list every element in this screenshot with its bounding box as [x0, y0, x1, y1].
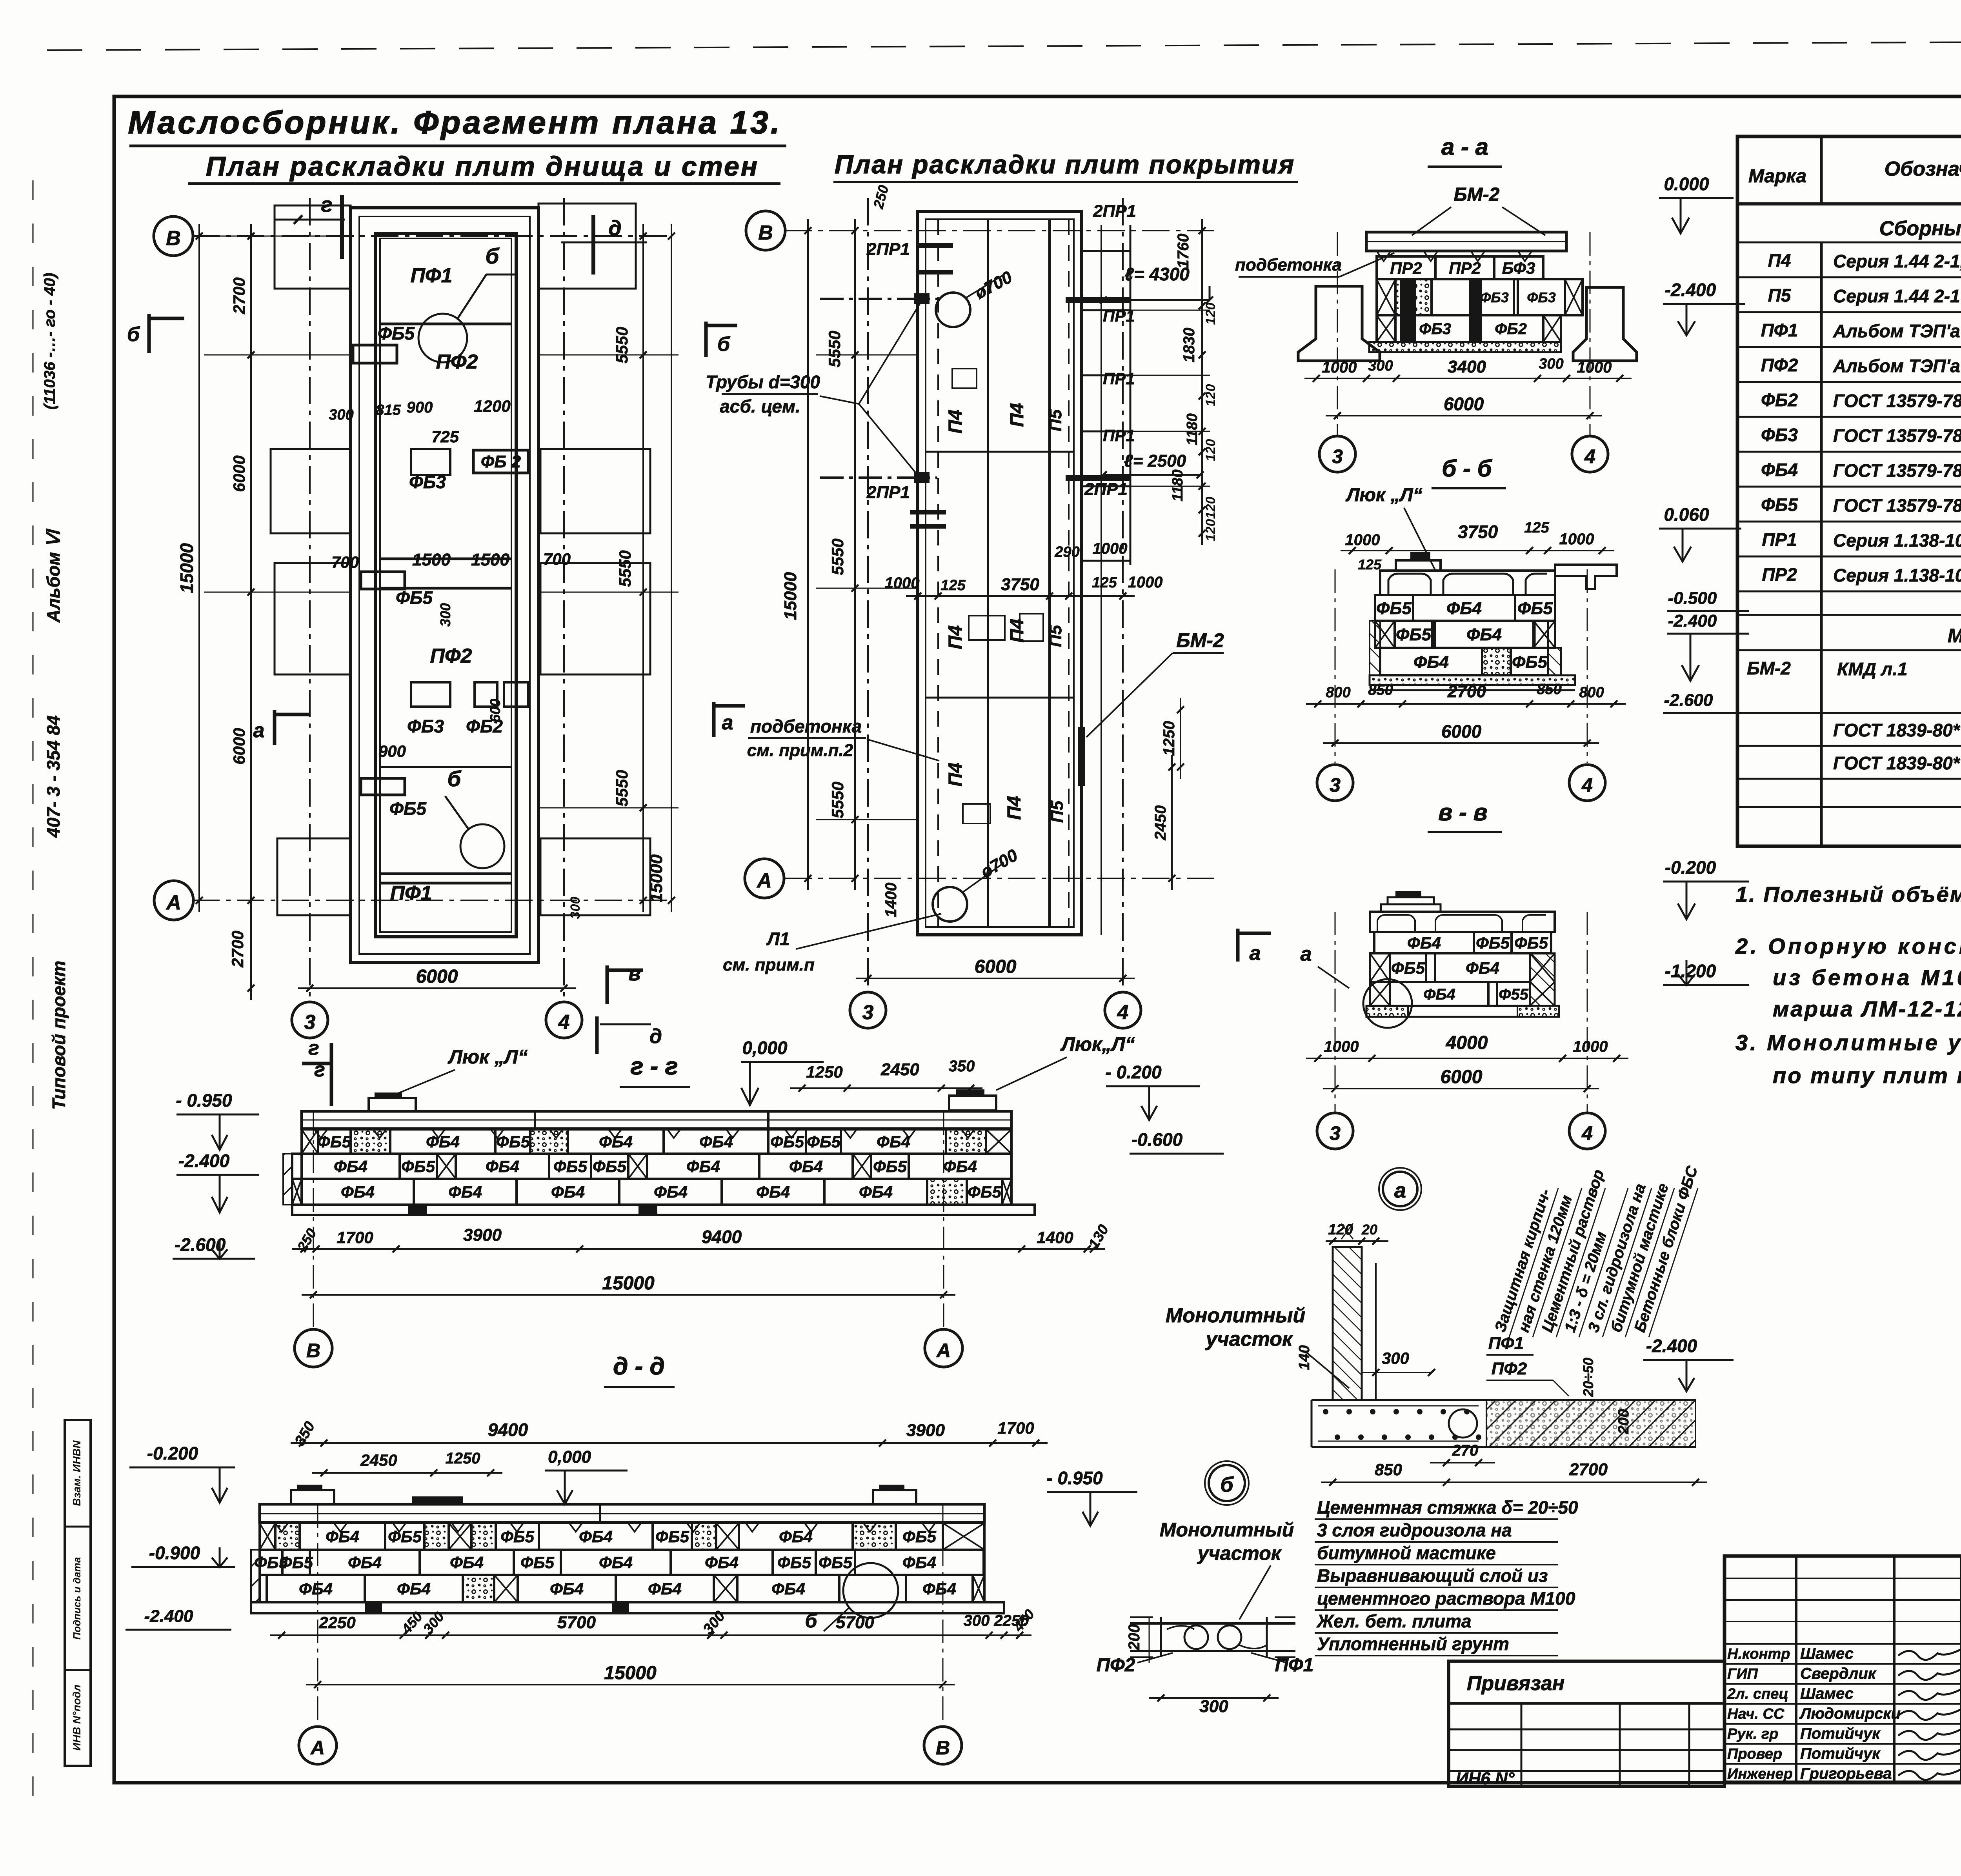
top lids в-в [1395, 891, 1421, 897]
grid circle 3 middle [850, 992, 886, 1028]
svg-text:ФБ4: ФБ4 [699, 1133, 733, 1151]
right total 15000 [671, 224, 672, 912]
svg-text:ФБ2: ФБ2 [1495, 320, 1527, 338]
block ФБ5 lower [361, 778, 405, 795]
svg-text:П4: П4 [1768, 250, 1791, 271]
section д-д group [126, 1353, 1137, 1764]
svg-text:П4: П4 [1007, 403, 1028, 427]
svg-text:ФБ5: ФБ5 [873, 1157, 907, 1176]
svg-text:Монолитный: Монолитный [1166, 1304, 1305, 1327]
svg-text:1760: 1760 [1175, 234, 1192, 269]
svg-text:ФБ4: ФБ4 [771, 1580, 805, 1598]
block ФБ5 upper [353, 345, 397, 363]
svg-text:1500: 1500 [471, 550, 509, 569]
lintel marks left top [918, 243, 953, 248]
svg-text:ФБ5: ФБ5 [553, 1157, 588, 1176]
svg-text:120: 120 [1203, 439, 1218, 462]
axis circle В [154, 216, 193, 256]
dim 6000 а-а [1326, 415, 1602, 416]
dim chain д-д bottom [270, 1634, 1031, 1636]
svg-text:Цементная стяжка δ= 20÷50: Цементная стяжка δ= 20÷50 [1317, 1497, 1578, 1518]
svg-text:ГОСТ 13579-78: ГОСТ 13579-78 [1833, 460, 1961, 481]
svg-text:ФБ5: ФБ5 [496, 1133, 530, 1151]
top slab в-в [1370, 912, 1555, 932]
svg-text:125: 125 [1524, 520, 1549, 536]
svg-text:ФБ4: ФБ4 [1423, 986, 1455, 1003]
svg-text:а: а [253, 719, 265, 742]
main block frame [1725, 1556, 1961, 1782]
svg-text:1200: 1200 [474, 397, 510, 415]
svg-text:-2.400: -2.400 [144, 1607, 193, 1626]
section mark б left [147, 314, 151, 353]
svg-text:125: 125 [1358, 556, 1382, 573]
svg-text:300: 300 [1539, 356, 1563, 372]
svg-text:ФБ4: ФБ4 [789, 1157, 823, 1176]
svg-text:ФБ5: ФБ5 [1476, 934, 1510, 952]
dims 1250 2450 350 [790, 1087, 982, 1089]
axis circle А middle [745, 859, 784, 898]
svg-text:П5: П5 [1046, 409, 1065, 431]
svg-text:120: 120 [1203, 497, 1218, 519]
wall blocks б-б row3 [1380, 648, 1482, 675]
block ФБ3 lower [411, 682, 450, 707]
svg-text:участок: участок [1205, 1328, 1293, 1351]
svg-text:ФБ4: ФБ4 [450, 1553, 484, 1572]
svg-text:П4: П4 [1004, 796, 1025, 820]
svg-text:2700: 2700 [228, 931, 247, 967]
svg-text:ФБ4: ФБ4 [1446, 599, 1482, 618]
wall blocks а-а row2 [1377, 279, 1395, 315]
svg-text:д: д [649, 1025, 662, 1048]
axis line В middle [784, 230, 1216, 231]
svg-text:ФБ4: ФБ4 [550, 1580, 584, 1598]
svg-text:ИНВ N°подл: ИНВ N°подл [71, 1685, 83, 1751]
foundation pad left 3 [275, 563, 351, 674]
edge hatch strips б-б [1370, 621, 1380, 675]
svg-text:ФБ5: ФБ5 [1514, 934, 1548, 952]
svg-text:125: 125 [1092, 574, 1117, 591]
svg-text:Марка: Марка [1748, 166, 1806, 187]
wall blocks в-в row2 [1370, 953, 1390, 982]
foundation pad right 3 [540, 563, 650, 674]
svg-text:1000: 1000 [1559, 531, 1594, 548]
svg-text:П5: П5 [1048, 800, 1067, 823]
top fold dashed line [47, 40, 1961, 50]
svg-text:700: 700 [331, 553, 359, 571]
svg-text:Альбом ТЭП'а N 71147: Альбом ТЭП'а N 71147 [1833, 356, 1961, 376]
top plate row б-б [1380, 571, 1555, 595]
svg-text:3900: 3900 [463, 1225, 502, 1245]
svg-text:Выравнивающий слой из: Выравнивающий слой из [1317, 1565, 1548, 1586]
svg-text:200: 200 [1126, 1624, 1143, 1651]
pipe dashdot bottom [820, 476, 937, 479]
svg-text:б: б [127, 323, 140, 346]
svg-text:Взам. ИНВN: Взам. ИНВN [71, 1440, 83, 1506]
section г-г group [173, 1033, 1224, 1367]
margin inv table [65, 1420, 91, 1766]
grid circles 3 4 а-а [1337, 232, 1338, 435]
svg-text:ПФ1: ПФ1 [1488, 1334, 1524, 1353]
svg-text:П4: П4 [945, 409, 966, 433]
svg-text:300: 300 [1382, 1349, 1409, 1367]
svg-text:6000: 6000 [1441, 721, 1482, 742]
dashed wall line right [1068, 219, 1070, 927]
svg-text:1000: 1000 [885, 574, 920, 592]
dim 300 detail б [1149, 1697, 1279, 1699]
svg-text:6000: 6000 [230, 455, 248, 492]
svg-text:600: 600 [487, 699, 503, 722]
dim 6000 б-б [1323, 742, 1599, 744]
base strip а-а [1369, 342, 1561, 352]
svg-text:БМ-2: БМ-2 [1454, 184, 1500, 205]
left dim chain vertical [250, 224, 252, 1000]
dims top д-д row2 [312, 1472, 502, 1474]
svg-text:- 0.950: - 0.950 [1046, 1468, 1103, 1488]
svg-text:-2.600: -2.600 [175, 1234, 226, 1255]
svg-text:Металлоконструкции: Металлоконструкции [1948, 625, 1961, 647]
svg-text:0,000: 0,000 [548, 1447, 591, 1467]
svg-text:20÷50: 20÷50 [1580, 1358, 1596, 1397]
svg-text:300: 300 [437, 603, 453, 627]
svg-text:- 0.200: - 0.200 [1105, 1062, 1162, 1082]
right dim chain 5550s [642, 224, 644, 912]
block ФБ3 upper [411, 449, 450, 475]
svg-text:5550: 5550 [828, 782, 847, 818]
svg-text:ФБ4: ФБ4 [599, 1133, 633, 1151]
svg-text:ФБ4: ФБ4 [686, 1157, 720, 1176]
svg-text:П4: П4 [1007, 618, 1028, 642]
main block left columns [1795, 1556, 1797, 1782]
труба leader lines [820, 396, 859, 404]
svg-text:План раскладки плит днища: План раскладки плит днища и стен [206, 151, 759, 182]
svg-text:в: в [628, 962, 640, 985]
svg-text:г - г: г - г [630, 1053, 678, 1080]
svg-text:а: а [1301, 943, 1312, 965]
svg-text:6000: 6000 [975, 956, 1017, 977]
section б-б group [1306, 455, 1749, 801]
svg-text:Типовой проект: Типовой проект [49, 961, 69, 1110]
table row ФБ2 [1737, 416, 1961, 418]
svg-text:ФБ4: ФБ4 [1466, 625, 1502, 644]
section а-а group [1235, 134, 1745, 472]
blank row [1737, 614, 1961, 616]
grid circles 3 4 б-б [1335, 569, 1336, 763]
svg-text:ФБ4: ФБ4 [877, 1133, 910, 1151]
left end hatch д-д [251, 1550, 260, 1602]
svg-text:ФБ4: ФБ4 [299, 1580, 333, 1598]
svg-text:ФБ5: ФБ5 [770, 1133, 804, 1151]
svg-text:1000: 1000 [1128, 574, 1163, 591]
foundation pad right 2 [540, 449, 650, 533]
section mark г bottom left [330, 1043, 333, 1086]
svg-text:120: 120 [1328, 1222, 1353, 1238]
svg-text:асб. цем.: асб. цем. [720, 396, 800, 416]
svg-text:д - д: д - д [613, 1353, 665, 1380]
svg-text:15000: 15000 [604, 1663, 657, 1683]
svg-text:ФБ3: ФБ3 [1419, 320, 1451, 338]
svg-text:ПФ1: ПФ1 [411, 264, 453, 287]
pedestal left а-а [1298, 286, 1380, 361]
svg-text:0.000: 0.000 [1664, 174, 1709, 194]
svg-text:6000: 6000 [230, 728, 248, 764]
svg-text:ФБ5: ФБ5 [655, 1527, 689, 1546]
svg-text:1000: 1000 [1345, 531, 1380, 549]
pedestal right а-а [1573, 287, 1637, 361]
svg-text:б: б [448, 766, 462, 791]
svg-text:ПР1: ПР1 [1103, 426, 1135, 445]
svg-text:ПР2: ПР2 [1449, 259, 1481, 277]
hatched concrete right part [1486, 1400, 1695, 1447]
svg-text:Л1: Л1 [766, 929, 789, 949]
svg-text:3: 3 [1330, 1122, 1341, 1144]
svg-text:140: 140 [1296, 1345, 1313, 1370]
svg-text:участок: участок [1197, 1542, 1282, 1564]
svg-text:4: 4 [1581, 774, 1593, 796]
svg-text:ФБ4: ФБ4 [599, 1553, 633, 1572]
title block group [1449, 1556, 1961, 1788]
svg-text:План раскладки плит покрытия: План раскладки плит покрытия [835, 150, 1295, 179]
signature scribbles [1898, 1649, 1961, 1660]
interior joint middle [380, 766, 511, 768]
svg-text:850: 850 [1537, 681, 1561, 698]
svg-text:ФБ4: ФБ4 [756, 1183, 790, 1201]
svg-text:Люк „Л“: Люк „Л“ [1345, 485, 1422, 505]
table row ПФ1 [1737, 346, 1961, 348]
svg-text:ФБ4: ФБ4 [426, 1133, 460, 1151]
grid circles 3 4 в-в [1335, 912, 1336, 1112]
svg-text:А: А [166, 891, 181, 914]
grid circle 3 [292, 1002, 328, 1038]
grid line 3 middle [867, 198, 869, 992]
svg-text:Григорьева: Григорьева [1800, 1765, 1892, 1782]
svg-text:-0.600: -0.600 [1131, 1129, 1183, 1150]
svg-text:1000: 1000 [1324, 1038, 1359, 1055]
svg-text:см. прим.п.2: см. прим.п.2 [747, 741, 853, 760]
interior joint below ПФ1 [380, 323, 511, 325]
edge hatch strip в-в right [1530, 953, 1555, 1006]
svg-text:ИН6 N°: ИН6 N° [1456, 1769, 1515, 1788]
svg-text:700: 700 [543, 550, 571, 568]
svg-text:В: В [306, 1340, 320, 1362]
block ФБ2 upper labelled [473, 450, 528, 473]
bottom 6000 middle [856, 978, 1135, 979]
axis line В [192, 235, 667, 237]
svg-text:Жел. бет. плита: Жел. бет. плита [1316, 1611, 1472, 1631]
svg-text:15000: 15000 [176, 543, 197, 593]
svg-text:ФБ4: ФБ4 [1466, 959, 1499, 977]
а mark right of middle plan [1236, 929, 1240, 962]
wall blocks а-а row ПР2 [1377, 256, 1435, 279]
svg-text:ПР1: ПР1 [1762, 529, 1797, 550]
svg-text:ФБ4: ФБ4 [348, 1553, 382, 1572]
БМ-2 support thick band [1078, 727, 1085, 786]
dim extension lines left plan [204, 354, 351, 356]
svg-text:Н.контр: Н.контр [1727, 1646, 1790, 1662]
svg-text:ФБ5: ФБ5 [1376, 599, 1412, 618]
svg-text:Уплотненный грунт: Уплотненный грунт [1317, 1634, 1509, 1654]
svg-text:ФБ4: ФБ4 [448, 1183, 482, 1201]
svg-text:подбетонка: подбетонка [1235, 255, 1342, 274]
svg-text:ГОСТ 1839-80*: ГОСТ 1839-80* [1833, 753, 1961, 773]
middle total 15000 [807, 219, 809, 890]
plate joint vertical 2 [1048, 219, 1051, 927]
svg-text:20: 20 [1361, 1222, 1377, 1238]
люк bump right [949, 1096, 996, 1111]
svg-text:Шамес: Шамес [1800, 1645, 1854, 1662]
svg-text:3. Монолитные участки: 3. Монолитные участки днищ выполнять с а… [1735, 1030, 1961, 1055]
svg-text:ФБ4: ФБ4 [705, 1553, 739, 1572]
svg-text:Инженер: Инженер [1727, 1766, 1793, 1782]
dim 15000 г-г [302, 1294, 955, 1296]
svg-text:5550: 5550 [616, 550, 634, 587]
svg-text:2ПР1: 2ПР1 [866, 240, 910, 259]
svg-text:300: 300 [568, 897, 583, 919]
svg-text:ФБ4: ФБ4 [654, 1183, 688, 1201]
svg-text:ФБ5: ФБ5 [1517, 599, 1553, 618]
break mark top [1341, 1223, 1353, 1239]
svg-text:ПР2: ПР2 [1390, 259, 1422, 277]
interior joint above bottom ПФ1 [380, 873, 511, 875]
svg-text:ФБ 2: ФБ 2 [481, 452, 521, 471]
svg-text:3: 3 [862, 1001, 874, 1024]
svg-text:Альбом ТЭП'а N 71147: Альбом ТЭП'а N 71147 [1833, 321, 1961, 341]
svg-text:-2.400: -2.400 [178, 1151, 230, 1171]
svg-text:а - а: а - а [1441, 134, 1488, 160]
svg-text:1250: 1250 [1161, 721, 1178, 756]
dim extension lines middle plan [816, 354, 918, 356]
svg-text:Серия 1.44 2-1,-в.1,2: Серия 1.44 2-1,-в.1,2 [1833, 251, 1961, 271]
svg-text:9400: 9400 [488, 1420, 528, 1440]
svg-text:-0.900: -0.900 [149, 1543, 200, 1563]
section mark в bottom right [606, 965, 609, 1004]
svg-text:ПФ2: ПФ2 [1761, 355, 1798, 375]
svg-text:1400: 1400 [882, 883, 900, 918]
svg-text:Трубы d=300: Трубы d=300 [706, 372, 820, 392]
wall г-г row1 [302, 1129, 318, 1154]
axis line А [192, 900, 667, 901]
svg-text:-2.400: -2.400 [1665, 280, 1716, 300]
dims top д-д row1 [291, 1442, 1048, 1444]
svg-text:а: а [722, 711, 733, 734]
svg-text:6000: 6000 [1444, 394, 1484, 414]
svg-text:6000: 6000 [1441, 1067, 1483, 1087]
svg-text:Серия 1.138-10 в.1: Серия 1.138-10 в.1 [1833, 530, 1961, 551]
svg-text:6000: 6000 [416, 966, 458, 987]
wall blocks б-б row2 [1375, 621, 1395, 648]
top slab а-а [1366, 232, 1566, 251]
grid line 4 [563, 198, 565, 1002]
svg-text:ФБ4: ФБ4 [648, 1580, 682, 1598]
detail circle а on в-в [1363, 979, 1412, 1028]
wall blocks в-в row3 [1370, 982, 1390, 1006]
svg-text:Людомирски: Людомирски [1799, 1705, 1901, 1722]
svg-text:2ПР1: 2ПР1 [866, 483, 910, 502]
top slab г-г [302, 1111, 1011, 1129]
top slab д-д [260, 1504, 984, 1522]
svg-text:битумной мастике: битумной мастике [1317, 1543, 1496, 1563]
svg-text:3: 3 [1332, 445, 1343, 467]
svg-text:15000: 15000 [781, 572, 800, 620]
svg-text:ФБ5: ФБ5 [902, 1527, 937, 1546]
dims б-б 800 850 2700 850 800 [1306, 703, 1626, 705]
а section mark middle [712, 702, 716, 737]
svg-text:300: 300 [1199, 1697, 1228, 1716]
svg-text:3: 3 [304, 1011, 316, 1034]
svg-text:подбетонка: подбетонка [750, 716, 862, 736]
б detail circle д-д [843, 1563, 898, 1618]
table row ПФ2 [1737, 381, 1961, 383]
grid circle 4 middle [1105, 992, 1141, 1028]
base strip г-г [292, 1205, 1035, 1215]
svg-text:из бетона М100 до монтажа: из бетона М100 до монтажа лестничного [1773, 965, 1961, 990]
svg-text:(11036 -…- го - 40): (11036 -…- го - 40) [41, 273, 58, 410]
svg-text:В: В [758, 222, 773, 244]
detail a circle label [1383, 1172, 1417, 1206]
middle bottom inner dims [906, 595, 1135, 597]
block ФБ5 mid [361, 572, 405, 589]
svg-text:П4: П4 [945, 762, 966, 786]
specification table group [1737, 136, 1961, 846]
svg-text:ФБ5: ФБ5 [1761, 494, 1798, 515]
svg-text:2ПР1: 2ПР1 [1084, 480, 1128, 499]
svg-text:1700: 1700 [337, 1228, 373, 1247]
svg-text:ФБ4: ФБ4 [579, 1527, 613, 1546]
right ladder strip [1101, 225, 1102, 935]
svg-text:2700: 2700 [1447, 682, 1486, 701]
svg-text:125: 125 [940, 577, 966, 594]
svg-text:ФБ3: ФБ3 [407, 716, 444, 736]
svg-text:850: 850 [1375, 1460, 1402, 1479]
svg-text:Рук. гр: Рук. гр [1727, 1726, 1778, 1742]
svg-text:ФБ4: ФБ4 [779, 1527, 813, 1546]
detail circle б bottom [460, 824, 504, 868]
detail б slab [1130, 1622, 1295, 1625]
svg-text:ПР1: ПР1 [1103, 307, 1135, 325]
люк bump left [369, 1098, 416, 1111]
dashed wall line left [937, 219, 939, 927]
foundation pad right 4 [540, 838, 650, 915]
section mark г small [330, 1059, 333, 1106]
pipe wall crossings right [1066, 297, 1130, 303]
svg-text:1250: 1250 [446, 1450, 480, 1467]
svg-text:БМ-2: БМ-2 [1176, 629, 1224, 651]
rebar dots left part [1323, 1409, 1328, 1414]
svg-text:2450: 2450 [880, 1060, 919, 1079]
svg-text:б: б [1220, 1473, 1234, 1496]
base strip д-д [251, 1602, 1004, 1613]
left end hatch г-г [283, 1154, 292, 1205]
svg-text:ФБ4: ФБ4 [486, 1157, 519, 1176]
svg-text:ФБ3: ФБ3 [1761, 425, 1798, 445]
svg-text:ФБ5: ФБ5 [378, 323, 415, 344]
б section mark middle [704, 322, 708, 357]
svg-text:Серия 1.138-10 в.1: Серия 1.138-10 в.1 [1833, 565, 1961, 585]
svg-text:-2.400: -2.400 [1646, 1336, 1697, 1356]
svg-text:ФБ5: ФБ5 [819, 1553, 853, 1572]
svg-text:270: 270 [1452, 1442, 1479, 1459]
svg-text:ФБ4: ФБ4 [943, 1157, 977, 1176]
svg-text:-2.600: -2.600 [1664, 691, 1713, 710]
wall д-д row2 [260, 1550, 282, 1575]
table row ФБ3 [1737, 451, 1961, 453]
svg-text:ФБ5: ФБ5 [388, 1527, 422, 1546]
svg-text:15000: 15000 [647, 854, 666, 902]
svg-text:1830: 1830 [1181, 328, 1198, 363]
svg-text:Люк „Л“: Люк „Л“ [448, 1046, 528, 1068]
svg-text:800: 800 [1579, 684, 1604, 701]
svg-text:Ф55: Ф55 [1499, 986, 1528, 1003]
svg-text:ПФ1: ПФ1 [1761, 320, 1798, 340]
